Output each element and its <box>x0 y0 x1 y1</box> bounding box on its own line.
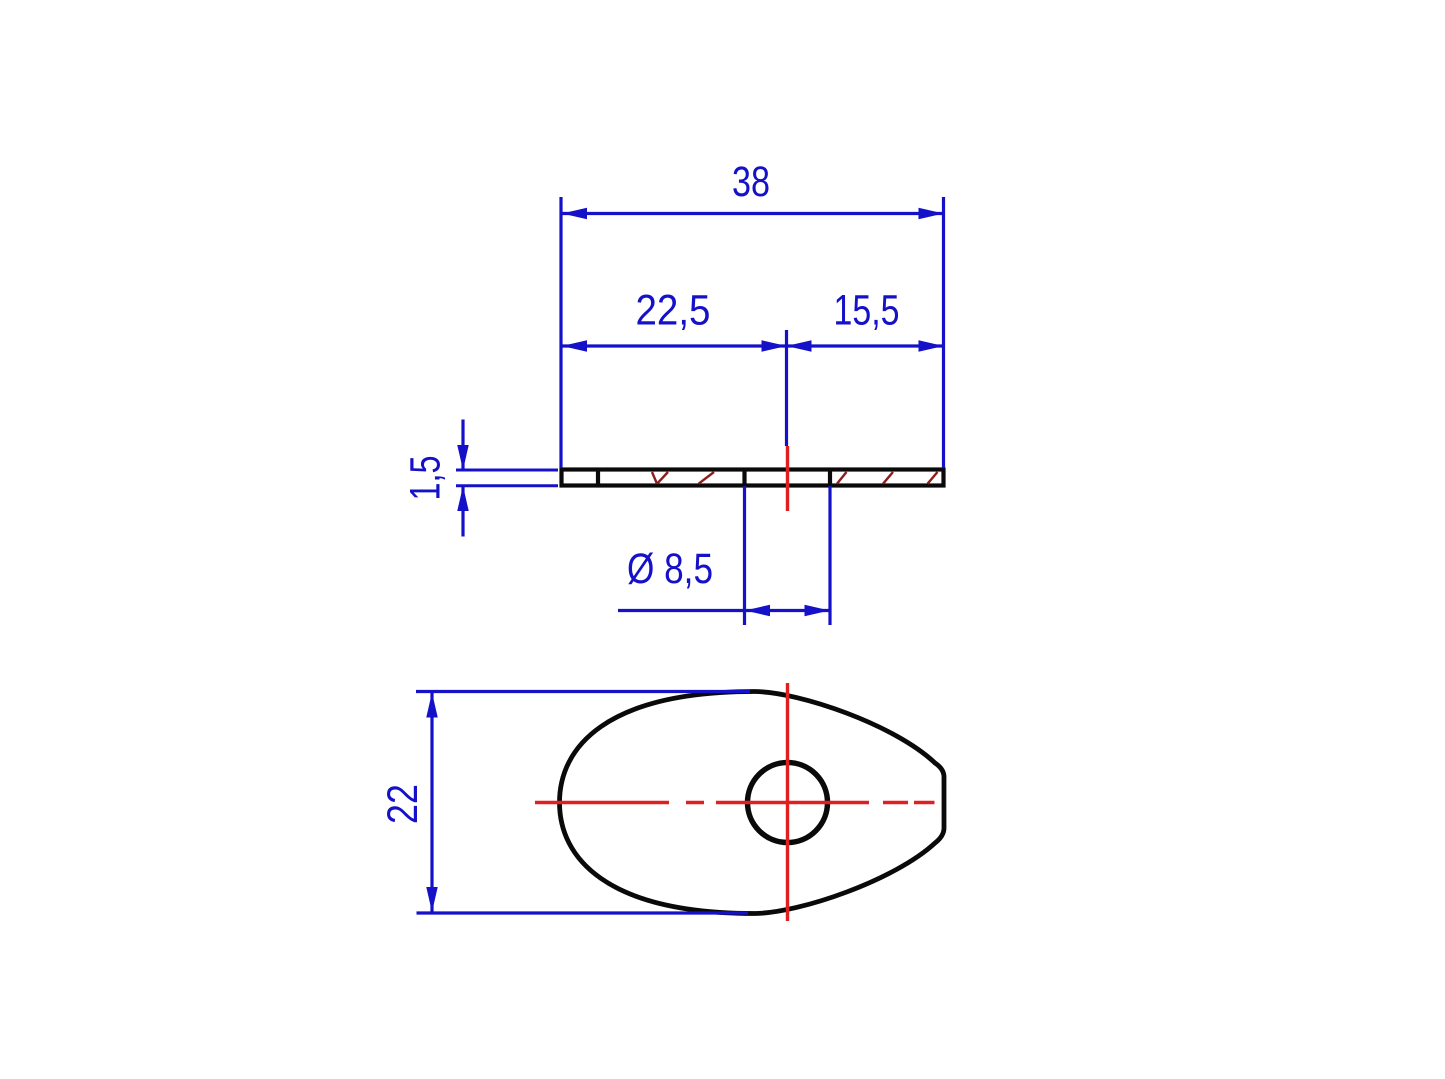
svg-text:22,5: 22,5 <box>636 287 711 335</box>
plate hole left edge <box>742 470 746 486</box>
plan view vertical centerline (red) <box>786 683 789 921</box>
dimension 1,5: dimension line segments <box>461 420 464 537</box>
dimension 22: arrows <box>426 693 438 913</box>
svg-text:Ø 8,5: Ø 8,5 <box>627 545 713 593</box>
hole dia 8,5: arrows <box>745 605 830 617</box>
svg-text:38: 38 <box>732 158 770 206</box>
dimension 38: extension lines <box>561 197 944 468</box>
dimension 1,5: arrows <box>457 445 469 511</box>
svg-text:22: 22 <box>379 784 427 824</box>
section view plate outline <box>562 470 944 486</box>
dimension 22: extension lines <box>416 692 750 914</box>
plan view hole circle <box>748 763 828 843</box>
dimension 22,5 / 15,5: middle extension line <box>785 330 788 446</box>
dimension 38: arrows <box>562 208 944 220</box>
section hatch lines <box>652 472 938 484</box>
dimension 22,5 / 15,5: dimension line <box>562 344 944 347</box>
plate divider left <box>596 470 600 486</box>
plate hole right edge <box>828 470 832 486</box>
svg-text:15,5: 15,5 <box>834 287 900 335</box>
plan view horizontal centerline (red) <box>535 801 935 804</box>
hole dia 8,5: extension lines <box>745 486 831 625</box>
dimension 1,5: extension lines <box>456 470 558 486</box>
dimension 38: dimension line <box>562 212 944 215</box>
hole dia 8,5: dimension/leader line <box>618 609 830 612</box>
plan view oval outline <box>560 692 945 914</box>
dimension 22,5 / 15,5: arrows <box>562 340 944 352</box>
dimension 22: dimension line <box>430 692 433 912</box>
svg-text:1,5: 1,5 <box>402 456 450 501</box>
section view hole centerline (red) <box>786 446 789 511</box>
